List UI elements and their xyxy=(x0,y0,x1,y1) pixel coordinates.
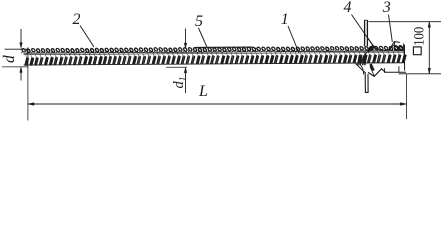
rod shaft (part 1) core second line xyxy=(23,52,404,54)
svg-text:5: 5 xyxy=(195,13,203,30)
dimension L extension line right xyxy=(406,74,408,119)
square symbol of square-100 dimension xyxy=(413,47,421,55)
dimension d1 vertical line with arrows xyxy=(184,29,187,94)
svg-text:d: d xyxy=(1,55,18,63)
dimension d extension line bottom xyxy=(2,66,28,68)
dimension d extension line top xyxy=(5,48,29,50)
spiral winding (part 2) top thread loops xyxy=(21,46,403,54)
svg-text:4: 4 xyxy=(344,0,352,16)
leader line for label 2 xyxy=(80,26,94,48)
blade (part 4) lower tip below rod xyxy=(356,64,407,93)
blade zone slightly bold bottom marks xyxy=(358,45,404,65)
strip sleeve (part 5) over rod xyxy=(195,47,257,50)
square-100 dimension vertical line with arrows xyxy=(428,22,431,74)
blade (part 4) bold crossing over rod xyxy=(362,37,404,63)
rod shaft (part 1) core top line xyxy=(23,51,404,53)
dimension L line with arrows xyxy=(28,103,407,106)
dimension d1 extension line bottom xyxy=(166,66,187,68)
dimension d vertical line with arrows xyxy=(20,29,23,81)
leader line for label 1 xyxy=(288,26,299,53)
leader line for label 3 xyxy=(389,15,393,42)
svg-text:L: L xyxy=(198,83,208,100)
square-100 dimension extension line top xyxy=(369,21,442,23)
rod right end cap xyxy=(403,45,405,71)
head plate (part 3) upper edge-on lines xyxy=(364,20,367,46)
svg-text:3: 3 xyxy=(382,0,391,16)
svg-text:2: 2 xyxy=(73,11,81,28)
svg-text:1: 1 xyxy=(281,11,289,28)
svg-text:100: 100 xyxy=(412,27,428,46)
square-100 dimension extension line bottom xyxy=(399,73,442,75)
spiral winding (part 2) bottom thread marks xyxy=(25,51,406,66)
leader line for label 5 xyxy=(199,28,208,47)
leader line for label 4 xyxy=(352,15,374,47)
dimension L extension line left xyxy=(27,47,29,120)
rod shaft (part 1) core bottom line xyxy=(24,63,405,65)
